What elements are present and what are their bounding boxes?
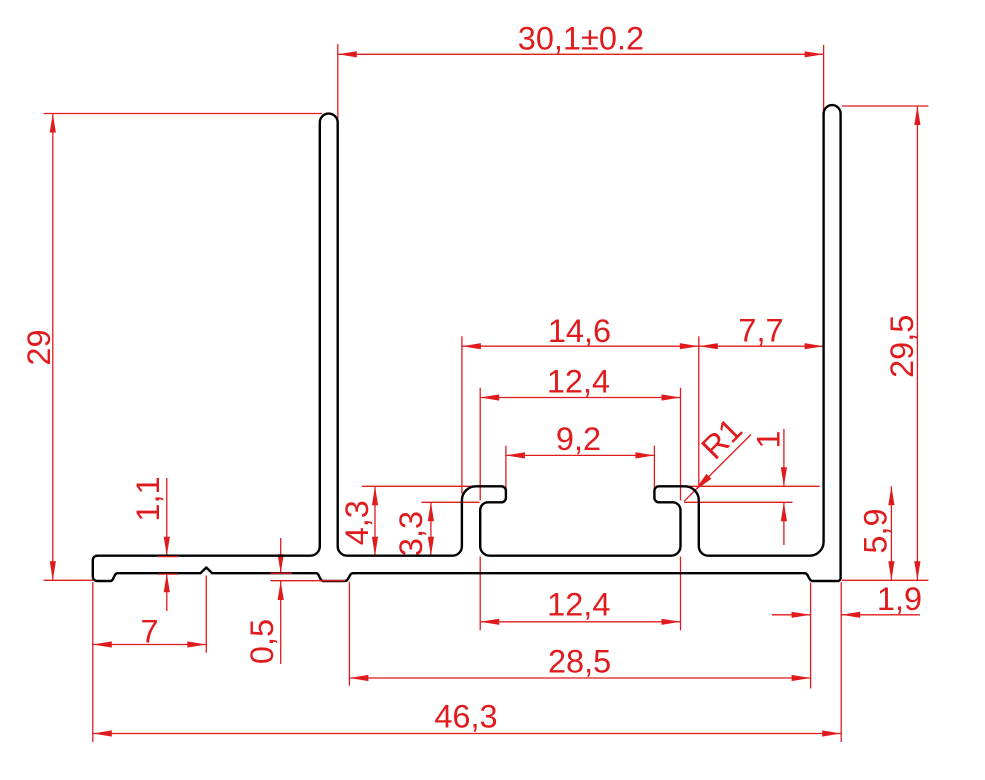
dimension 1 line upper <box>783 429 785 486</box>
dimension 4,3 extension line <box>362 485 472 487</box>
svg-text:1: 1 <box>751 431 787 449</box>
svg-text:28,5: 28,5 <box>548 644 611 680</box>
dimension 29,5/5,9 extension line bottom <box>842 579 928 581</box>
dimension 1,9 extension right <box>840 582 842 742</box>
dimension 46,3 line <box>93 733 841 735</box>
svg-text:29: 29 <box>21 329 57 365</box>
svg-text:1,9: 1,9 <box>877 581 922 617</box>
dimension 30,1±0.2 extension line right <box>823 45 825 119</box>
dimension 29 extension line bottom <box>44 579 94 581</box>
dimension 29 extension line top <box>44 113 323 115</box>
dimension 1,9 line right <box>841 614 920 616</box>
dimension 12,4 lower extension right <box>680 557 682 631</box>
dimension 30,1±0.2 extension line left <box>337 44 339 119</box>
dimension 1,9 extension left <box>810 583 812 689</box>
dimension 29,5 extension line top <box>842 105 928 107</box>
svg-text:0,5: 0,5 <box>244 619 280 664</box>
svg-text:12,4: 12,4 <box>547 587 610 623</box>
svg-text:14,6: 14,6 <box>548 313 611 349</box>
svg-text:12,4: 12,4 <box>547 363 610 399</box>
dimension 12,4 upper extension right <box>680 388 682 501</box>
svg-text:4,3: 4,3 <box>339 500 375 545</box>
svg-text:30,1±0.2: 30,1±0.2 <box>518 21 644 57</box>
dimension 28,5 line <box>349 677 810 679</box>
dimension 14,6 extension line left <box>461 336 463 493</box>
dimension 12,4 upper extension left <box>479 388 481 501</box>
dimension 9,2 line <box>506 454 655 456</box>
dimension 3,3 extension line <box>421 501 479 503</box>
dimension 12,4 lower extension left <box>479 557 481 631</box>
dimension 12,4 upper line <box>480 397 680 399</box>
dimension 1 line lower <box>783 502 785 545</box>
dimension 29,5 line <box>916 106 918 580</box>
dimension 0,5 extension lower <box>271 580 346 582</box>
dimension 5,9 line <box>890 486 892 580</box>
svg-text:46,3: 46,3 <box>434 698 497 734</box>
dimension 5,9 extension line top <box>672 485 820 487</box>
dimension 14,6/7,7 extension line middle <box>698 336 700 485</box>
dimension 9,2 extension left <box>505 446 507 489</box>
svg-text:3,3: 3,3 <box>393 511 429 556</box>
dimension 1,1 line lower <box>166 573 168 611</box>
dimension 0,5 extension upper <box>271 572 292 574</box>
dimension 46,3 extension left <box>92 582 94 742</box>
svg-text:29,5: 29,5 <box>884 315 920 378</box>
dimension 7 extension line right <box>205 576 207 653</box>
svg-text:7: 7 <box>140 614 158 650</box>
dimension 30,1±0.2 line <box>338 53 824 55</box>
svg-text:5,9: 5,9 <box>858 508 894 553</box>
dimension 9,2 extension right <box>653 446 655 489</box>
dimension 28,5 extension left <box>348 582 350 686</box>
svg-text:1,1: 1,1 <box>130 476 166 521</box>
dimension 7 line <box>93 644 207 646</box>
dimension 1,1 line upper <box>166 478 168 556</box>
dimension 1,9 line left <box>772 614 811 616</box>
aluminium profile cross-section outline <box>93 105 841 581</box>
dimension 1,1 extension ticks <box>158 556 178 558</box>
dimension 14,6 and 7,7 line <box>462 345 824 347</box>
svg-text:9,2: 9,2 <box>556 421 601 457</box>
dimension 12,4 lower line <box>480 621 680 623</box>
dimension 3,3 line <box>430 502 432 555</box>
dimension 1 extension line bottom <box>684 501 793 503</box>
dimension 0,5 line upper <box>280 538 282 573</box>
dimension 0,5 line lower <box>280 581 282 664</box>
svg-text:7,7: 7,7 <box>738 313 783 349</box>
dimension 29 line <box>52 114 54 581</box>
dimension 4,3 line <box>374 486 376 555</box>
radius leader R1 <box>684 435 751 502</box>
